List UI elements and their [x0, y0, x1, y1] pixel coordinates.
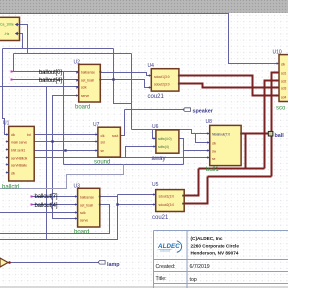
svg-text:se: se [101, 149, 105, 153]
block U6 away [152, 124, 179, 162]
bus riser to U10 pin2 [272, 73, 280, 177]
svg-text:sco: sco [276, 106, 286, 112]
wire top net to U10 pin1 [0, 14, 279, 64]
block U10 scoreb [273, 50, 292, 112]
wire U1 out4 long run to U8 pin4 [34, 157, 210, 159]
svg-text:ballsense: ballsense [80, 195, 94, 199]
wire U6 pin2 feed [126, 147, 156, 158]
svg-text:sdfw(4:0): sdfw(4:0) [158, 137, 172, 141]
svg-text:sdout1(3:0: sdout1(3:0 [159, 194, 175, 198]
wire ballout[4] lower net [32, 204, 78, 206]
svg-text:sound: sound [94, 160, 110, 166]
svg-text:servNBllclk: servNBllclk [11, 156, 28, 160]
svg-text:ballout[7]: ballout[7] [35, 194, 58, 200]
svg-text:sd1: sd1 [281, 71, 286, 75]
wire lamp net [11, 262, 100, 264]
title block [154, 231, 289, 288]
svg-text:(C)ALDEC, Inc: (C)ALDEC, Inc [191, 236, 223, 241]
wire to U5 pin2 [118, 204, 156, 206]
svg-text:ballctrl: ballctrl [2, 185, 19, 191]
bottom window edge [0, 286, 288, 288]
svg-text:2260 Corporate Circle: 2260 Corporate Circle [191, 243, 240, 248]
svg-text:sd2: sd2 [281, 79, 286, 83]
svg-text:sout: sout [112, 134, 118, 138]
magenta marker ballout[7] [31, 196, 33, 198]
wire gray step net [0, 165, 124, 189]
bus horizontal y168 [199, 168, 265, 170]
svg-text:NBallout(7:0: NBallout(7:0 [212, 132, 230, 136]
junction dot U2 out2 [112, 78, 114, 80]
svg-text:bd: bd [27, 133, 31, 137]
bus branch down from ball net [245, 134, 247, 169]
wire U1 out2 to U7 pin2 [34, 141, 98, 143]
junction dot U5 pin2 [116, 203, 118, 205]
wire clock east run to U8 pin1 [132, 130, 210, 134]
wire left vertical to U1 clk [3, 49, 9, 135]
svg-text:Henderson, NV 89074: Henderson, NV 89074 [191, 251, 239, 256]
svg-text:speaker: speaker [193, 109, 214, 115]
svg-text:clk: clk [212, 141, 216, 145]
wire branch to U8 pin2 [196, 134, 210, 143]
magenta marker ballout[0] [11, 71, 13, 73]
svg-text:Ca_100e: Ca_100e [0, 23, 14, 27]
magenta marker ballout[4] lower [31, 204, 33, 206]
buffer gate lamp driver [0, 258, 11, 267]
svg-text:sdout2(3:0: sdout2(3:0 [154, 82, 170, 86]
block U2 board [74, 60, 102, 111]
wire clk block pin1 riser [20, 25, 28, 54]
wire ballout[7] net [32, 196, 78, 198]
wire U3 out1 riser [0, 195, 118, 240]
svg-text:board: board [74, 230, 89, 236]
svg-text:sclk: sclk [81, 86, 87, 90]
wire speaker net [125, 109, 185, 111]
svg-text:Created:: Created: [156, 264, 176, 270]
ALDEC logo [157, 241, 182, 253]
input pin arrowheads [6, 62, 279, 220]
svg-text:set_bsell: set_bsell [81, 79, 94, 83]
junction dot serve net [51, 140, 53, 142]
svg-text:U8: U8 [206, 119, 213, 125]
svg-text:serve: serve [80, 219, 88, 223]
wire branch to U6 pin1 [153, 130, 156, 139]
block U8 ball1 [206, 119, 243, 173]
wire U2 out2 to U4 pin2 [100, 80, 151, 88]
block U7 sound [93, 122, 120, 166]
svg-text:top: top [190, 277, 197, 283]
svg-text:servNBalle: servNBalle [11, 163, 27, 167]
wire U2 out1 to U4 pin1 [100, 73, 151, 76]
title block address text [191, 236, 240, 256]
svg-text:clk: clk [281, 62, 285, 66]
svg-text:clk: clk [11, 133, 15, 137]
toolbar gray bar [0, 0, 288, 13]
svg-text:main serve: main serve [11, 140, 27, 144]
wire U1 out3 to U7 pin3 [34, 150, 98, 152]
svg-text:lamp: lamp [107, 262, 120, 268]
wire vertical x46 [46, 87, 48, 240]
terminal speaker [183, 108, 214, 115]
svg-text:sdout1(3:0: sdout1(3:0 [154, 75, 170, 79]
svg-text:bhit sent1: bhit sent1 [11, 148, 25, 152]
svg-text:sdfw(4): sdfw(4) [158, 145, 169, 149]
wire ballout[0] net [12, 71, 79, 73]
terminal ball [268, 131, 284, 139]
clock generator block [0, 17, 20, 40]
svg-text:se: se [212, 157, 216, 161]
wire into U2 pin3 [0, 86, 79, 88]
svg-text:ballout[0]: ballout[0] [39, 70, 62, 76]
svg-text:board: board [75, 105, 90, 111]
wire ballout[0] branch vertical [63, 72, 65, 165]
wire U3 clk feed [0, 212, 78, 214]
svg-text:sd3: sd3 [281, 86, 286, 90]
svg-text:serve: serve [81, 94, 89, 98]
block U1 ballctrl [2, 121, 34, 191]
svg-text:ballout[4]: ballout[4] [39, 78, 62, 84]
wire lower mid horizontal [64, 164, 184, 166]
bus U5 out1 riser [184, 169, 198, 196]
svg-text:away: away [152, 156, 166, 162]
wire to U5 pin1 [118, 194, 156, 196]
wire H2 clock distribution [14, 54, 132, 130]
bus horizontal y176 [208, 176, 272, 178]
block U4 coul1 [148, 63, 180, 100]
svg-text:ball1: ball1 [206, 167, 219, 173]
svg-text:6/7/2019: 6/7/2019 [190, 264, 210, 270]
bus riser to U10 pin3 [265, 81, 280, 169]
wire U1 out1 to U7 pin1 [34, 134, 98, 136]
svg-text:U1: U1 [3, 121, 10, 127]
wire ballout[4] net [12, 79, 79, 81]
svg-text:ball: ball [275, 133, 285, 139]
wire U7 sout riser [120, 110, 124, 136]
svg-text:-Hz: -Hz [4, 32, 10, 36]
U10 bus pin arrowheads [277, 71, 279, 97]
junction dot out3 net [64, 149, 66, 151]
svg-text:sw: sw [212, 149, 217, 153]
wire H1 top horizontal [3, 48, 114, 50]
svg-text:clk: clk [11, 171, 15, 175]
svg-text:cou21: cou21 [148, 94, 165, 100]
svg-text:Title:: Title: [156, 276, 167, 282]
svg-text:set_bsell: set_bsell [80, 203, 93, 207]
bus U4 out1 to U10 pin5 [179, 76, 279, 96]
block U5 cou21 [152, 182, 184, 221]
svg-text:U5: U5 [152, 182, 159, 188]
svg-text:clk: clk [101, 134, 105, 138]
svg-text:sdout2(3:0: sdout2(3:0 [159, 203, 175, 207]
terminal lamp [98, 261, 120, 268]
svg-text:ALDEC: ALDEC [157, 243, 180, 250]
wire U3 out2 run [0, 205, 110, 234]
bus U4 out2 to U10 pin4 [179, 84, 279, 88]
svg-text:sid: sid [101, 141, 105, 145]
svg-text:ballout[4]: ballout[4] [35, 203, 58, 209]
wire U2 out2 riser and jog [114, 49, 132, 104]
magenta marker ballout[4] [11, 79, 13, 81]
wire clk block pin2 riser [20, 34, 23, 49]
wire U6 out to U8 pin3 [179, 139, 210, 165]
block U3 board [74, 184, 101, 236]
svg-text:cou21: cou21 [152, 215, 169, 221]
svg-text:sclk: sclk [80, 211, 86, 215]
bus U8 out to ball terminal [241, 133, 268, 135]
wire serve net U2-U1-U3 [53, 96, 79, 219]
svg-text:sd4: sd4 [281, 95, 286, 99]
svg-text:ballsense: ballsense [81, 71, 95, 75]
bus U5 out2 riser [184, 177, 207, 204]
